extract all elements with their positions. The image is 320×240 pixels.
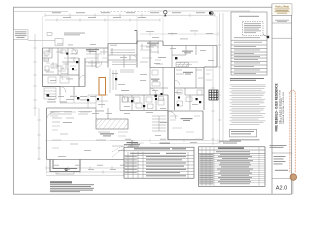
- room label FAMILY: [181, 118, 193, 121]
- small detail box near top-left of plan: [55, 39, 63, 46]
- vertical project title: [275, 83, 279, 131]
- guest closet hatch: [176, 63, 189, 67]
- dashed instruction box: [243, 22, 264, 36]
- chimney stub above kitchen: [135, 31, 138, 44]
- door schedule table: [124, 143, 194, 179]
- bottom-left notes block: [50, 181, 94, 192]
- door arcs extra: [47, 55, 180, 120]
- notes column heading: [239, 15, 259, 18]
- orange capsule annotation: [290, 90, 296, 173]
- laundry appliances: [123, 97, 164, 109]
- top-right tiny notes: [146, 31, 213, 40]
- title block divider y38: [272, 37, 292, 39]
- top-left reference label box: [14, 30, 29, 40]
- door swing arcs: [60, 48, 176, 119]
- caption under notes box: [230, 78, 264, 81]
- hatched block (new area): [96, 119, 128, 129]
- entry partitions: [60, 87, 108, 109]
- orange highlight rectangle: [99, 78, 106, 96]
- room label MASTER BEDROOM: [86, 49, 99, 52]
- entry area rows: [48, 96, 96, 100]
- porch bump bottom-left: [50, 160, 80, 175]
- room label GUEST ROOM top: [182, 51, 193, 54]
- title block small text rows: [270, 145, 287, 148]
- orange circle marker: [290, 174, 297, 181]
- bottom dimension lines under plan: [46, 166, 174, 175]
- gray line below circle: [292, 180, 294, 194]
- title block left divider: [271, 4, 273, 194]
- room label GUEST RM mid: [183, 72, 193, 75]
- exterior stair dark cluster bottom-right of plan: [209, 90, 218, 100]
- top dimension line 1: [14, 11, 250, 22]
- leader arrow from dashed box: [263, 35, 268, 38]
- keynotes list: [230, 85, 266, 125]
- room label LIVING: [100, 133, 114, 136]
- sheet border: [14, 7, 292, 194]
- legend box in notes column: [230, 129, 257, 137]
- room label BED RM: [151, 79, 160, 82]
- bottom dim text specks: [53, 139, 201, 170]
- ceiling arcs in living room: [112, 143, 144, 157]
- bath fixtures top-left: [44, 50, 78, 83]
- dark fixture dots: [47, 12, 212, 171]
- tiny note text above top wall: [47, 33, 85, 36]
- top dimension text ticks: [52, 12, 205, 18]
- living room built-ins: [50, 112, 92, 115]
- notes column frame: [231, 12, 267, 75]
- title block address row: [272, 15, 292, 23]
- extension light lines from plan to top: [43, 16, 218, 174]
- exterior walls (dark): [43, 41, 218, 160]
- line under legend: [230, 138, 260, 141]
- right-of-plan vertical dimension lines: [211, 13, 223, 145]
- kitchen cabinetry light lines: [110, 50, 136, 93]
- entry steps left: [44, 88, 56, 99]
- interior partitions (medium): [43, 46, 205, 120]
- window schedule table: [199, 141, 266, 187]
- svg-text:FIRE REBUILD - OJEU RESIDENCE: FIRE REBUILD - OJEU RESIDENCE: [275, 83, 279, 131]
- bath fixtures right wing: [122, 70, 202, 106]
- leader from label box: [28, 39, 55, 41]
- misc fine texture master wing: [44, 46, 212, 148]
- stair treads hall: [152, 116, 166, 131]
- centered caption above door schedule: [124, 142, 140, 145]
- grid bubble A: [164, 11, 167, 14]
- grid bubble B: [210, 12, 213, 15]
- svg-text:SANTA ROSA, CA 95404: SANTA ROSA, CA 95404: [282, 92, 285, 124]
- extra fine partitions master suite: [44, 41, 203, 146]
- room label GREAT ROOM: [147, 43, 159, 46]
- scattered tiny labels: [47, 57, 167, 147]
- tiny text specks scatter: [50, 44, 214, 157]
- logo box: [272, 4, 292, 16]
- left margin dimension lines: [33, 34, 40, 160]
- svg-text:A2.0: A2.0: [276, 186, 288, 192]
- notes column row texts: [234, 37, 262, 74]
- svg-text:Arch▲Vista: Arch▲Vista: [275, 6, 289, 9]
- right wing roof dim: [45, 32, 218, 143]
